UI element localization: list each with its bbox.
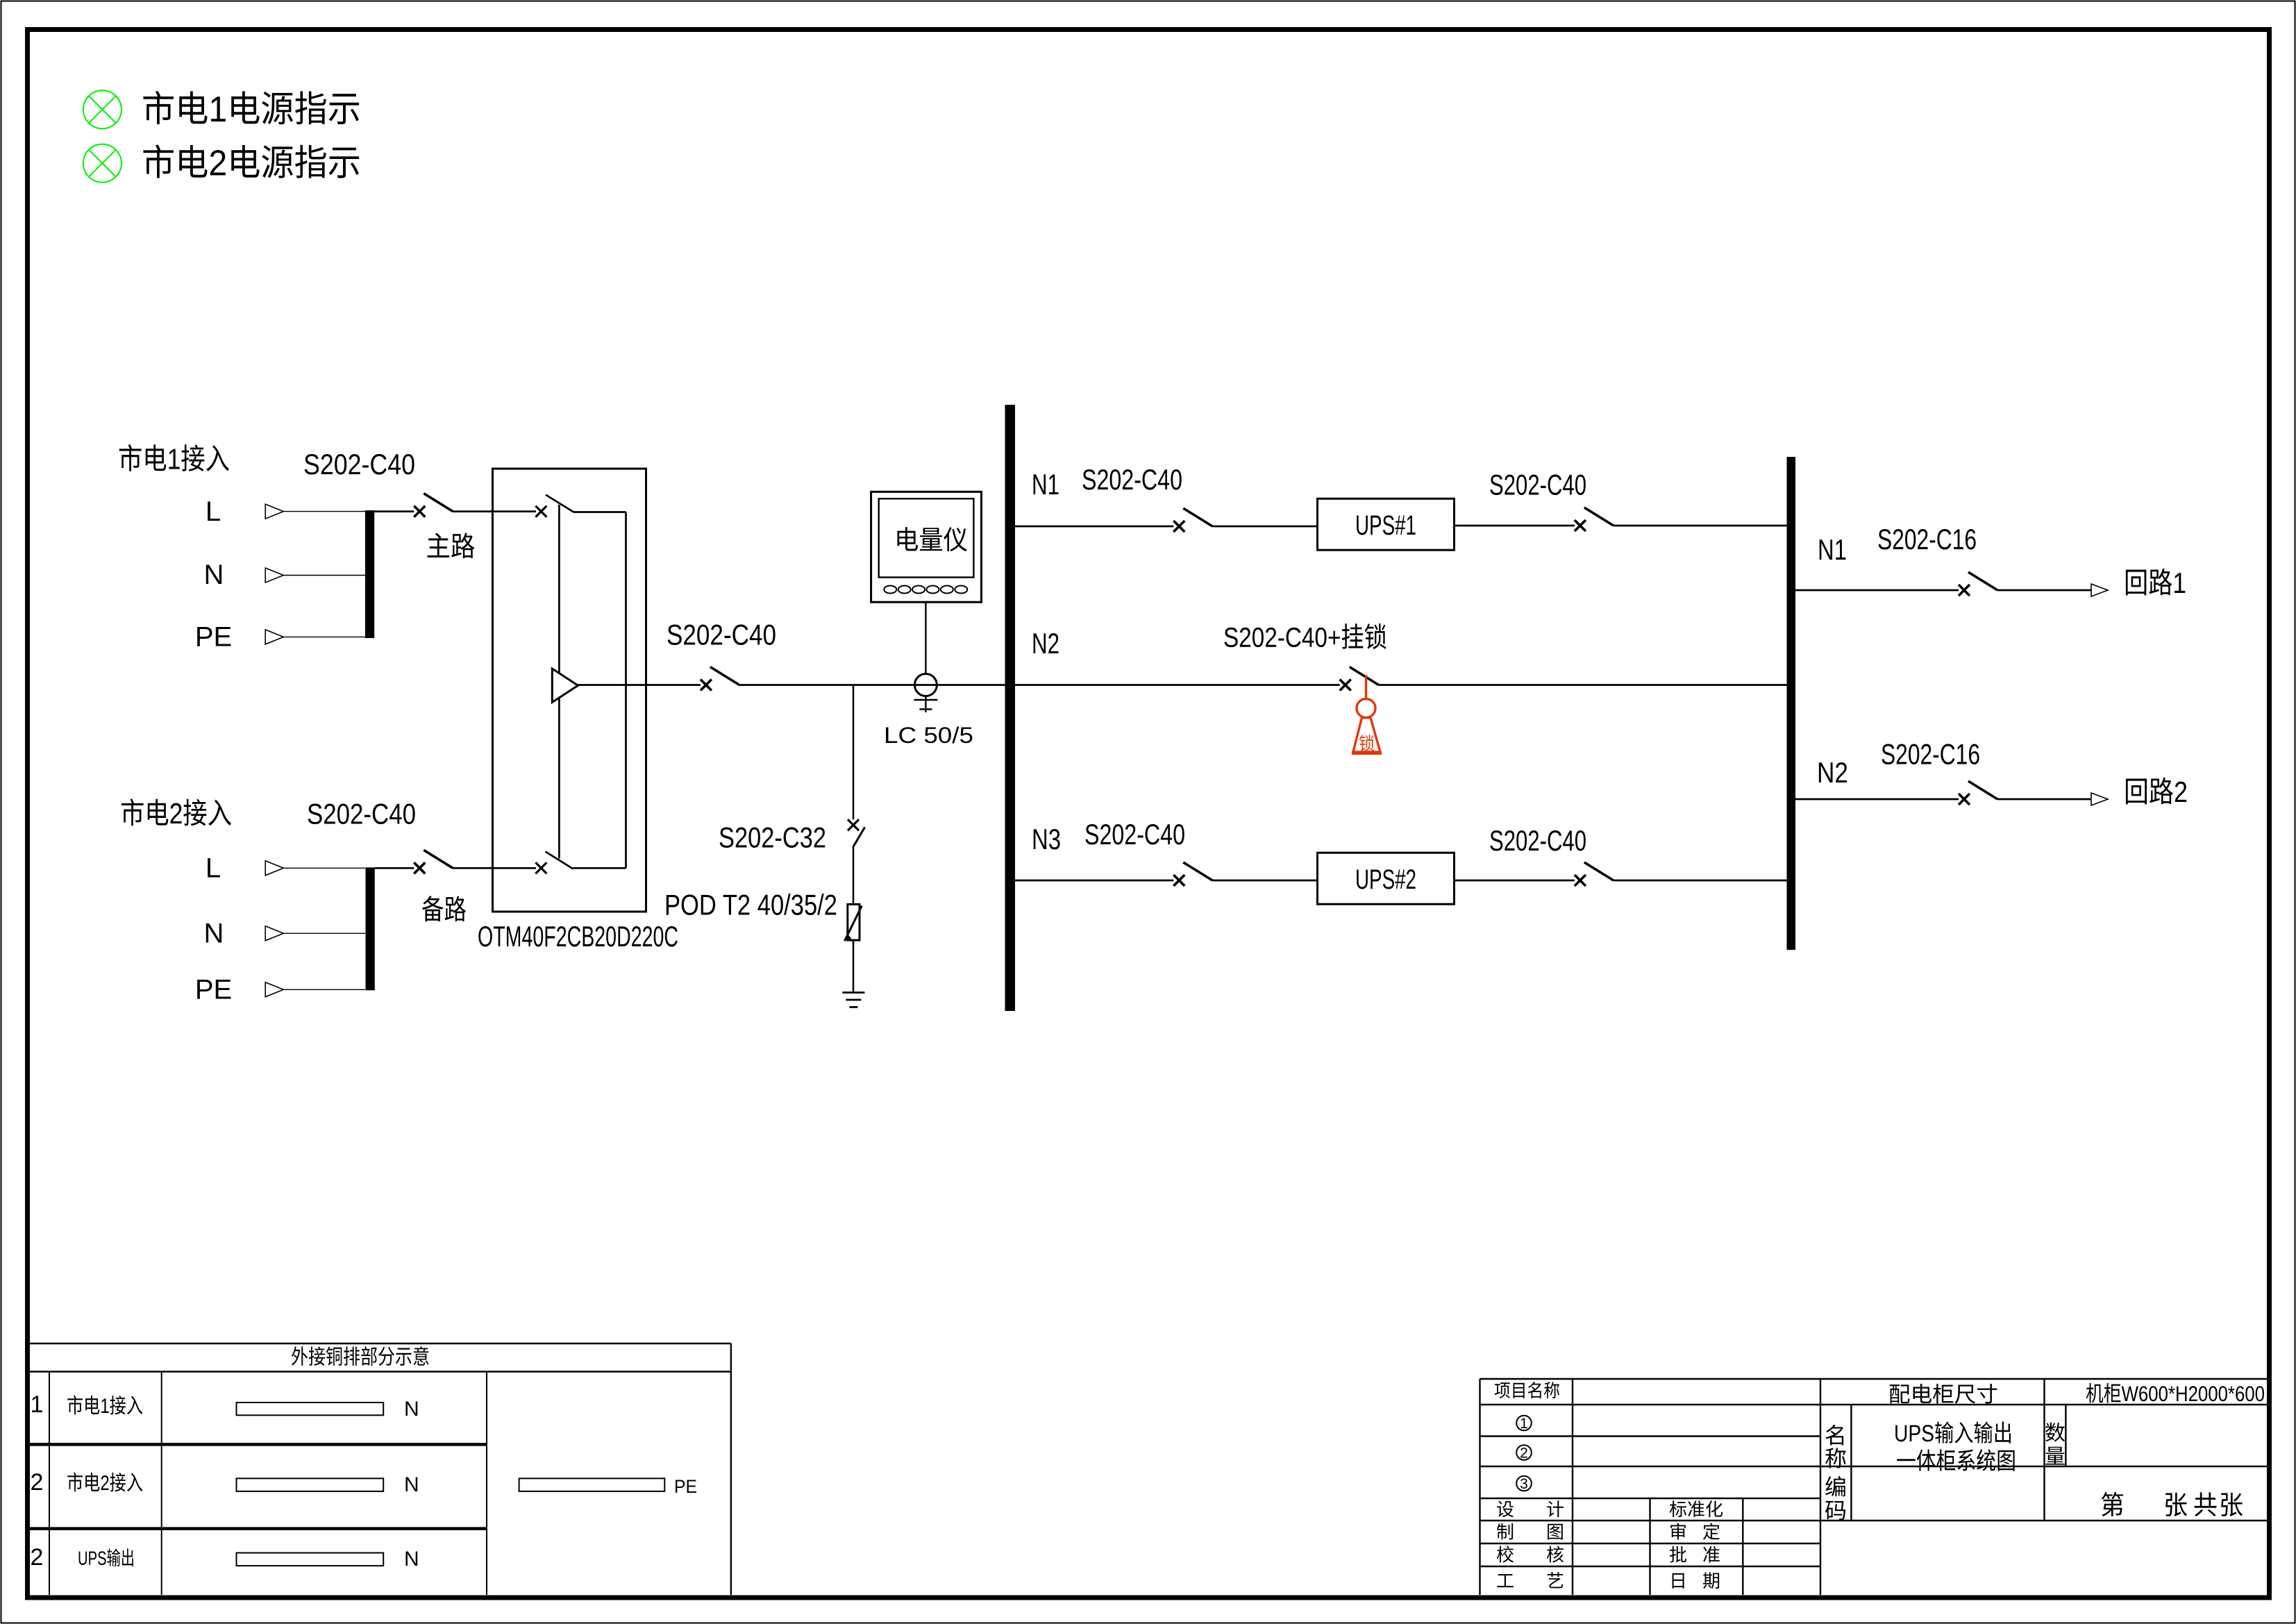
UPS#2 box: [1318, 853, 1455, 904]
svg-text:S202-C40: S202-C40: [307, 798, 416, 830]
wire N2 busbar to QF7: [1015, 684, 1340, 686]
wire QF11 to 回路2 arrow: [1997, 798, 2091, 801]
svg-text:N2: N2: [1032, 627, 1059, 660]
meter buttons row: [884, 586, 967, 594]
svg-text:L: L: [206, 496, 221, 527]
ATS transfer switch box OTM40F2CB20D220C: [493, 469, 646, 912]
busbar N drawing row1: [237, 1403, 384, 1415]
svg-text:N3: N3: [1032, 823, 1061, 855]
terminal arrow PE1: [265, 630, 283, 644]
svg-text:L: L: [206, 853, 221, 884]
svg-text:2: 2: [31, 1544, 44, 1571]
label breaker QF7 S202-C40+挂锁: [1225, 623, 1386, 649]
label 电量仪: [897, 527, 966, 551]
svg-text:N: N: [204, 919, 224, 949]
svg-text:2: 2: [1520, 1446, 1528, 1462]
wire PE2 tail: [283, 989, 365, 990]
label 锁: [1359, 735, 1374, 751]
label 编码 (vertical): [1825, 1476, 1845, 1496]
svg-text:S202-C40: S202-C40: [303, 448, 415, 480]
breaker QF8 S202-C40 (N3): [1173, 862, 1212, 886]
wire N2 tail: [283, 932, 365, 934]
right distribution busbar: [1787, 457, 1796, 950]
title block grid: [1480, 1379, 2268, 1595]
label 机柜W600*H2000*600: [2086, 1383, 2264, 1403]
outgoing arrow 回路1: [2091, 584, 2108, 596]
label ③: [1516, 1476, 1532, 1491]
label 设计: [1497, 1501, 1514, 1518]
ground symbol (SPD): [842, 993, 864, 1007]
wire busbar2 to QF2: [375, 867, 414, 869]
wire UPS#2 to QF9: [1455, 880, 1575, 882]
label 主路: [427, 533, 474, 558]
label 工艺: [1497, 1574, 1513, 1587]
outgoing arrow 回路2: [2091, 793, 2108, 805]
breaker QF11 S202-C16 (回路2): [1959, 781, 1997, 805]
wire SPD branch vertical: [853, 685, 855, 820]
label 市电1接入: [119, 444, 229, 471]
breaker QF10 S202-C16 (回路1): [1959, 572, 1997, 596]
svg-text:POD T2 40/35/2: POD T2 40/35/2: [664, 889, 837, 921]
label lamp HL2: [143, 144, 359, 178]
label ②: [1516, 1445, 1532, 1460]
wire QF1 to ATS box: [453, 510, 492, 512]
wire busbar1 to QF1: [374, 510, 414, 512]
wire QF2 to ATS box: [453, 867, 492, 869]
svg-text:S202-C32: S202-C32: [719, 821, 826, 854]
wire QF7 to right busbar: [1379, 684, 1787, 686]
left distribution busbar N: [1005, 405, 1016, 1011]
wire right busbar to QF10: [1795, 589, 1959, 592]
svg-text:PE: PE: [195, 622, 232, 653]
svg-text:OTM40F2CB20D220C: OTM40F2CB20D220C: [478, 920, 678, 953]
label 数量 (vertical): [2045, 1423, 2065, 1442]
svg-text:PE: PE: [674, 1476, 697, 1497]
terminal arrow L1: [265, 504, 283, 997]
label 名称 (vertical): [1826, 1425, 1844, 1446]
wire QF8 to UPS#2: [1212, 880, 1317, 882]
lamp HL1 市电1电源指示: [83, 90, 121, 128]
wire ATS main input: [493, 510, 537, 512]
label 配电柜尺寸: [1890, 1384, 1997, 1404]
label 市电2接入: [121, 798, 231, 826]
wire PE1 tail: [283, 636, 365, 637]
wire L1 tail: [283, 512, 365, 990]
copper busbar table 外接铜排部分示意: [29, 1343, 731, 1595]
breaker QF3 S202-C40 (ATS output): [701, 667, 739, 691]
label 回路2: [2126, 778, 2186, 805]
wire QF10 to 回路1 arrow: [1997, 589, 2091, 592]
label 制图: [1497, 1523, 1513, 1540]
wire right busbar to QF11: [1795, 798, 1959, 801]
wire L2 tail: [283, 867, 365, 869]
svg-text:N: N: [204, 560, 224, 590]
label UPS输入输出: [1895, 1421, 2011, 1443]
wire UPS#1 to QF6: [1455, 525, 1575, 527]
wire QF9 to right busbar: [1614, 880, 1787, 882]
wire meter to CT: [925, 602, 926, 673]
CT earth tail: [914, 696, 937, 713]
label 回路1: [2126, 569, 2185, 596]
breaker QF2 S202-C40 (市电2): [414, 850, 453, 873]
power meter 电量仪: [871, 492, 982, 602]
svg-text:UPS#2: UPS#2: [1355, 864, 1416, 895]
svg-text:N2: N2: [1817, 756, 1848, 789]
svg-text:S202-C16: S202-C16: [1881, 738, 1980, 771]
label 批准: [1670, 1546, 1686, 1563]
breaker QF7 S202-C40 with padlock (N2): [1340, 667, 1379, 691]
svg-text:3: 3: [1520, 1476, 1528, 1492]
label 日期: [1673, 1573, 1684, 1589]
busbar N drawing row3: [237, 1553, 384, 1566]
svg-text:1: 1: [1520, 1416, 1528, 1432]
svg-text:S202-C16: S202-C16: [1877, 523, 1977, 555]
wire ATS output to QF3: [578, 684, 701, 686]
ATS output triangle: [552, 669, 578, 703]
label 一体柜系统图: [1897, 1449, 2014, 1471]
terminal arrow N2: [265, 926, 283, 941]
terminal arrow L2: [265, 861, 283, 876]
wire ATS backup input: [493, 867, 537, 869]
svg-text:N: N: [404, 1473, 419, 1496]
input terminal busbar 2: [366, 867, 375, 990]
wire QF5 to UPS#1: [1212, 526, 1317, 528]
svg-text:LC 50/5: LC 50/5: [884, 723, 973, 748]
breaker QF4 S202-C32 (SPD): [848, 819, 865, 904]
label 市电2接入 (table): [67, 1473, 142, 1492]
svg-text:S202-C40: S202-C40: [1084, 818, 1185, 851]
svg-text:N1: N1: [1032, 468, 1059, 501]
lamp HL2 市电2电源指示: [83, 144, 121, 183]
svg-text:S202-C40: S202-C40: [667, 619, 776, 651]
svg-text:N: N: [404, 1398, 419, 1421]
label 市电1接入 (table): [67, 1396, 142, 1415]
svg-text:S202-C40: S202-C40: [1082, 463, 1182, 496]
label 项目名称: [1495, 1382, 1559, 1398]
ATS backup contact X: [535, 862, 546, 873]
label 校核: [1497, 1546, 1514, 1563]
ATS main contact blade: [546, 495, 573, 512]
terminal arrow PE2: [265, 982, 283, 997]
wire SPD to ground: [853, 940, 855, 992]
ATS internal bus left: [558, 505, 560, 859]
svg-text:PE: PE: [195, 975, 232, 1005]
busbar PE drawing: [519, 1478, 665, 1491]
label 外接铜排部分示意: [292, 1346, 428, 1366]
wire QF3 to left busbar (through SPD node and CT): [739, 684, 1005, 686]
padlock symbol 挂锁: [1352, 675, 1382, 753]
wire QF6 to right busbar: [1614, 525, 1787, 527]
ATS main contact X: [535, 506, 546, 517]
ATS internal bus right: [573, 512, 626, 869]
label 标准化: [1670, 1500, 1723, 1517]
label ①: [1516, 1416, 1532, 1431]
label 第 张 共 张: [2102, 1492, 2124, 1516]
svg-text:1: 1: [31, 1391, 44, 1418]
svg-text:N: N: [404, 1548, 419, 1571]
breaker QF6 S202-C40 (UPS#1 out): [1575, 508, 1614, 531]
surge protector POD T2 40/35/2: [845, 904, 862, 941]
wire N1 tail: [283, 575, 365, 576]
terminal arrow N1: [265, 568, 283, 583]
svg-text:S202-C40: S202-C40: [1489, 824, 1586, 857]
wire N1 busbar to QF5: [1015, 526, 1173, 528]
input terminal busbar 1: [365, 510, 374, 638]
svg-text:UPS#1: UPS#1: [1355, 510, 1416, 541]
label UPS输出 (table): [79, 1548, 133, 1566]
ATS backup contact blade: [546, 852, 573, 869]
breaker QF1 S202-C40 (市电1): [414, 494, 453, 517]
breaker QF5 S202-C40 (N1): [1173, 508, 1212, 532]
label 备路: [422, 896, 466, 921]
UPS#1 box: [1318, 499, 1455, 550]
busbar N drawing row2: [237, 1478, 384, 1491]
current transformer LC 50/5: [914, 674, 937, 696]
label 审定: [1670, 1523, 1686, 1539]
label lamp HL1: [143, 91, 359, 124]
svg-text:N1: N1: [1818, 533, 1847, 566]
svg-text:2: 2: [31, 1469, 44, 1496]
breaker QF9 S202-C40 (UPS#2 out): [1575, 862, 1614, 886]
wire N3 busbar to QF8: [1015, 880, 1173, 882]
svg-text:S202-C40: S202-C40: [1489, 469, 1586, 501]
